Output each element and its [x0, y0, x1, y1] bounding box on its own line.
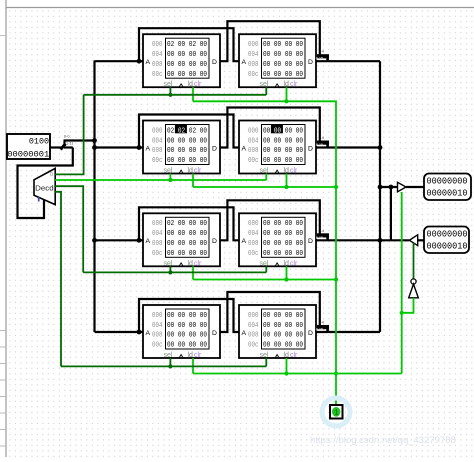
- svg-text:00c: 00c: [152, 250, 163, 258]
- svg-text:000: 000: [152, 127, 163, 135]
- junction A-bus row3: [92, 238, 97, 243]
- wire ld stubs row4: [193, 358, 287, 374]
- svg-text:A: A: [146, 59, 151, 66]
- input pin P5 value 1: [330, 405, 343, 419]
- svg-text:A: A: [242, 238, 247, 245]
- svg-text:00 00 00 00: 00 00 00 00: [167, 51, 207, 59]
- wire A loop row1: [139, 28, 239, 61]
- inverter U4: [409, 279, 419, 298]
- svg-text:004: 004: [248, 322, 259, 330]
- svg-text:00 00 00 00: 00 00 00 00: [263, 312, 303, 320]
- svg-text:004: 004: [152, 230, 163, 238]
- junction sel row4: [168, 364, 172, 368]
- wire ld stubs row3: [193, 266, 287, 279]
- wire A loop row2: [139, 115, 239, 148]
- svg-text:00 00 00 00: 00 00 00 00: [167, 137, 207, 145]
- wire D loop row3: [220, 200, 320, 240]
- junction A port row2: [137, 145, 142, 150]
- svg-text:-4: -4: [321, 321, 324, 325]
- RAM R4: [239, 305, 316, 359]
- svg-text:00c: 00c: [248, 71, 259, 79]
- wire sel line row4: [61, 365, 266, 367]
- junction D bus row2: [378, 145, 383, 150]
- svg-text:008: 008: [152, 240, 163, 248]
- junction A-bus row2: [92, 145, 97, 150]
- svg-text:008: 008: [248, 147, 259, 155]
- svg-text:008: 008: [152, 332, 163, 340]
- svg-text:004: 004: [152, 51, 163, 59]
- RAM L1: [143, 34, 220, 88]
- svg-text:000: 000: [248, 312, 259, 320]
- svg-text:00 00 00 00: 00 00 00 00: [167, 157, 207, 165]
- output pin P3: [424, 174, 471, 201]
- svg-text:000: 000: [152, 312, 163, 320]
- svg-text:clr: clr: [194, 81, 202, 88]
- svg-text:00 00 00 00: 00 00 00 00: [167, 71, 207, 79]
- junction ld bus row2: [334, 185, 338, 189]
- wire A stub row1: [139, 60, 143, 62]
- junction ld row3: [284, 277, 288, 281]
- svg-text:sel: sel: [164, 260, 173, 267]
- svg-text:-4: -4: [321, 229, 324, 233]
- svg-text:00 00 00 00: 00 00 00 00: [263, 342, 303, 350]
- wire sel row2: [170, 174, 266, 181]
- wire ld line row2: [193, 186, 336, 188]
- junction ld row2: [284, 185, 288, 189]
- svg-text:clr: clr: [290, 168, 298, 175]
- svg-text:00 00 00 00: 00 00 00 00: [167, 342, 207, 350]
- wire ld stubs row2: [193, 174, 287, 188]
- wire A stub row2: [139, 146, 143, 148]
- svg-text:00000010: 00000010: [427, 242, 468, 252]
- svg-text:A: A: [242, 330, 247, 337]
- svg-text:00 00 00 00: 00 00 00 00: [167, 240, 207, 248]
- svg-text:-4: -4: [321, 50, 324, 54]
- svg-text:clr: clr: [194, 260, 202, 267]
- svg-text:02 00 00 00: 02 00 00 00: [167, 220, 207, 228]
- svg-text:00 00 00 00: 00 00 00 00: [263, 332, 303, 340]
- svg-text:000: 000: [248, 127, 259, 135]
- svg-text:ld: ld: [284, 260, 290, 267]
- svg-text:02 02 02 00: 02 02 02 00: [167, 127, 207, 135]
- wire sel line row3: [83, 271, 266, 273]
- svg-text:sel: sel: [260, 260, 269, 267]
- wire A row3: [95, 239, 140, 241]
- junction enable: [400, 311, 404, 315]
- wire decoder out3: [55, 192, 61, 367]
- svg-text:000: 000: [248, 41, 259, 49]
- svg-text:A: A: [146, 238, 151, 245]
- decoder U1 Decd: [34, 168, 55, 204]
- svg-text:000: 000: [248, 220, 259, 228]
- svg-text:sel: sel: [260, 81, 269, 88]
- svg-text:00000001: 00000001: [7, 149, 49, 159]
- wire decoder out2: [55, 186, 83, 272]
- svg-text:00 00 00 00: 00 00 00 00: [263, 51, 303, 59]
- svg-text:https://blog.csdn.net/qq_43279: https://blog.csdn.net/qq_43279788: [310, 435, 456, 446]
- wire sel line row2: [55, 179, 266, 181]
- svg-text:008: 008: [152, 147, 163, 155]
- wire A loop row3: [139, 207, 239, 240]
- svg-text:ld: ld: [188, 81, 194, 88]
- svg-text:1: 1: [335, 410, 339, 417]
- wire sel row4: [170, 358, 266, 366]
- wire A stub row4: [139, 331, 143, 333]
- svg-text:0-0: 0-0: [64, 135, 70, 139]
- wire inverter input: [402, 298, 414, 313]
- svg-text:sel: sel: [260, 168, 269, 175]
- wire A loop row4: [139, 299, 239, 332]
- junction ld bus row3: [334, 277, 338, 281]
- svg-text:00c: 00c: [152, 157, 163, 165]
- svg-text:ld: ld: [188, 260, 194, 267]
- svg-text:A: A: [242, 145, 247, 152]
- splitter SD1: [316, 50, 329, 62]
- svg-text:-4: -4: [321, 136, 324, 140]
- svg-text:sel: sel: [164, 168, 173, 175]
- svg-text:sel: sel: [260, 352, 269, 359]
- svg-text:00 00 00 00: 00 00 00 00: [167, 312, 207, 320]
- wire pin to tri-state: [418, 239, 424, 241]
- svg-text:00 00 00 00: 00 00 00 00: [263, 41, 303, 49]
- splitter SD4: [316, 321, 329, 333]
- svg-text:00 00 00 00: 00 00 00 00: [167, 332, 207, 340]
- svg-text:00c: 00c: [152, 342, 163, 350]
- RAM L3: [143, 213, 220, 267]
- svg-text:D: D: [212, 330, 217, 337]
- svg-text:D: D: [212, 238, 217, 245]
- wire A row1: [95, 60, 140, 62]
- svg-text:sel: sel: [164, 81, 173, 88]
- junction ld bus row4: [334, 371, 338, 375]
- svg-text:00 00 00 00: 00 00 00 00: [263, 240, 303, 248]
- svg-text:clr: clr: [194, 352, 202, 359]
- wire enable vertical: [401, 192, 403, 374]
- svg-text:00c: 00c: [248, 342, 259, 350]
- svg-text:ld: ld: [188, 352, 194, 359]
- svg-text:ld: ld: [188, 168, 194, 175]
- input pin P1 value 010000000001: [7, 134, 50, 159]
- wire A-bus vertical: [93, 61, 95, 333]
- wire D loop row1: [220, 21, 320, 61]
- svg-text:00 00 00 00: 00 00 00 00: [263, 220, 303, 228]
- junction ld row4: [284, 371, 288, 375]
- svg-text:00c: 00c: [248, 157, 259, 165]
- svg-text:ld: ld: [284, 168, 290, 175]
- svg-text:02 00 02 00: 02 00 02 00: [167, 41, 207, 49]
- svg-text:ld: ld: [284, 81, 290, 88]
- selection halo: [322, 398, 350, 426]
- svg-text:000: 000: [152, 41, 163, 49]
- wire D bus row3: [316, 239, 391, 241]
- svg-text:00 00 00 00: 00 00 00 00: [263, 322, 303, 330]
- wire D loop row2: [220, 108, 320, 148]
- wire ld line row1: [193, 101, 336, 405]
- svg-text:0: 0: [50, 172, 53, 178]
- svg-text:clr: clr: [194, 168, 202, 175]
- svg-text:004: 004: [248, 51, 259, 59]
- svg-text:00000010: 00000010: [427, 189, 468, 199]
- wire bus leg1 to A-bus: [64, 139, 95, 141]
- wire D bus row2: [316, 146, 380, 148]
- svg-text:Decd: Decd: [35, 184, 54, 193]
- svg-text:004: 004: [248, 137, 259, 145]
- junction sel row3: [168, 270, 172, 274]
- svg-text:00 00 00 00: 00 00 00 00: [263, 127, 303, 135]
- wire ld line row4: [193, 373, 402, 375]
- wire buffer out: [406, 186, 424, 188]
- svg-text:008: 008: [248, 240, 259, 248]
- svg-text:00 00 00 00: 00 00 00 00: [263, 61, 303, 69]
- junction sel row1: [168, 93, 172, 97]
- svg-text:A: A: [146, 330, 151, 337]
- wire D bus row1: [316, 60, 380, 62]
- junction A port row3: [137, 238, 142, 243]
- svg-text:008: 008: [152, 61, 163, 69]
- svg-text:ld: ld: [284, 352, 290, 359]
- svg-text:00000000: 00000000: [427, 177, 468, 187]
- svg-text:clr: clr: [290, 81, 298, 88]
- input pin P4: [424, 227, 469, 254]
- svg-text:D: D: [308, 238, 313, 245]
- svg-text:D: D: [308, 145, 313, 152]
- svg-text:004: 004: [152, 322, 163, 330]
- wire sel row1: [170, 87, 266, 95]
- svg-text:D: D: [212, 145, 217, 152]
- svg-text:00 00 00 00: 00 00 00 00: [167, 147, 207, 155]
- svg-text:008: 008: [248, 61, 259, 69]
- wire sel row3: [170, 266, 266, 272]
- svg-text:004: 004: [248, 230, 259, 238]
- junction ld row1: [284, 99, 288, 103]
- tri-state buffer U3: [409, 235, 417, 246]
- wire decoder out0: [55, 95, 84, 175]
- wire tri-state out: [391, 239, 410, 241]
- svg-text:D: D: [212, 59, 217, 66]
- RAM L4: [143, 305, 220, 359]
- RAM R2: [239, 121, 316, 175]
- svg-text:A: A: [146, 145, 151, 152]
- svg-text:00 00 00 00: 00 00 00 00: [167, 230, 207, 238]
- junction sel row2: [168, 178, 172, 182]
- svg-text:clr: clr: [290, 352, 298, 359]
- RAM L2: [143, 121, 220, 175]
- wire D loop row4: [220, 292, 320, 332]
- svg-text:00 00 00 00: 00 00 00 00: [167, 322, 207, 330]
- junction A port row1: [137, 59, 142, 64]
- junction D bus row3: [378, 238, 383, 243]
- svg-text:00 00 00 00: 00 00 00 00: [263, 157, 303, 165]
- svg-text:004: 004: [152, 137, 163, 145]
- svg-text:00 00 00 00: 00 00 00 00: [263, 71, 303, 79]
- watermark: [310, 435, 456, 446]
- RAM R1: [239, 34, 316, 88]
- splitter SP0 (pin bus fanout): [50, 135, 73, 150]
- junction buffer tap: [378, 185, 383, 190]
- svg-text:00 00 00 00: 00 00 00 00: [263, 137, 303, 145]
- wire ld stubs row1: [193, 87, 287, 101]
- svg-text:00: 00: [274, 127, 281, 135]
- wire sel line row1: [84, 94, 267, 96]
- wire A stub row3: [139, 239, 143, 241]
- wire tri-state enable: [413, 243, 415, 279]
- svg-text:sel: sel: [164, 352, 173, 359]
- svg-text:00 00 00 00: 00 00 00 00: [167, 61, 207, 69]
- svg-text:D: D: [308, 59, 313, 66]
- wire A row4: [95, 331, 140, 333]
- splitter SD2: [316, 136, 329, 148]
- wire D bus vertical: [379, 61, 381, 332]
- svg-text:02: 02: [178, 127, 185, 135]
- svg-text:00c: 00c: [152, 71, 163, 79]
- svg-text:00c: 00c: [248, 250, 259, 258]
- svg-text:000: 000: [152, 220, 163, 228]
- svg-text:00 00 00 00: 00 00 00 00: [263, 230, 303, 238]
- svg-text:D: D: [308, 330, 313, 337]
- svg-text:0100: 0100: [29, 137, 49, 147]
- svg-text:00 00 00 00: 00 00 00 00: [263, 147, 303, 155]
- junction A-bus leg1: [92, 138, 97, 143]
- svg-text:clr: clr: [290, 260, 298, 267]
- svg-text:00000000: 00000000: [427, 230, 468, 240]
- wire A row2: [95, 146, 140, 148]
- svg-text:A: A: [242, 59, 247, 66]
- wire tap to buffer: [380, 186, 398, 188]
- splitter SD3: [316, 229, 329, 241]
- svg-text:00 00 00 00: 00 00 00 00: [263, 250, 303, 258]
- RAM R3: [239, 213, 316, 267]
- buffer U2: [398, 182, 407, 192]
- wire D bus row4: [316, 331, 380, 333]
- svg-text:00 00 00 00: 00 00 00 00: [167, 250, 207, 258]
- wire vert tri-state: [390, 187, 392, 240]
- wire ld line row3: [193, 279, 336, 281]
- junction vert tri-state: [389, 185, 394, 190]
- junction A port row4: [137, 330, 142, 335]
- svg-text:1-11: 1-11: [66, 142, 73, 146]
- wire select path: [18, 148, 73, 219]
- svg-text:008: 008: [248, 332, 259, 340]
